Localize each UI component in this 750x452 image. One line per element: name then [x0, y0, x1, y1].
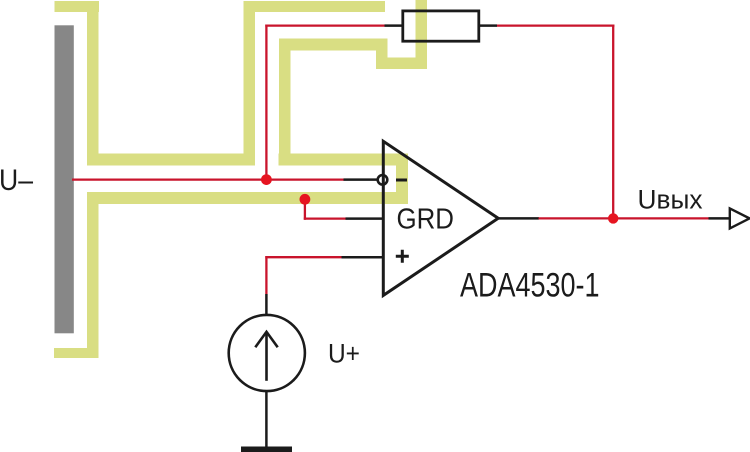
wire: vertical black into current source [265, 294, 268, 316]
guard trace: outer top band [244, 1, 386, 12]
junction node on guard band (GRD pickup) [300, 194, 311, 205]
junction node A on U- wire [261, 174, 272, 185]
svg-text:U–: U– [0, 164, 34, 197]
wire: output black segment to arrow [709, 217, 749, 220]
guard trace: bottom-left stub [54, 348, 99, 358]
op-amp plus pin sign [396, 250, 409, 263]
wire: U- input black segment to input node [344, 178, 379, 181]
wire: output black from op-amp tip [497, 217, 539, 220]
ground [241, 447, 292, 452]
wire: +input horizontal red from source [265, 256, 341, 258]
guard trace: band above U- wire (right part, guard-ring top) [279, 154, 409, 166]
wire: U- input red segment [72, 178, 344, 180]
svg-text:GRD: GRD [397, 204, 455, 236]
wire: +input horizontal black [342, 256, 384, 259]
svg-text:U+: U+ [328, 338, 360, 368]
wire: current source to ground [265, 391, 268, 448]
wire: resistor right lead black [479, 24, 498, 27]
output arrow head [730, 208, 750, 228]
input node open circle [378, 175, 388, 185]
guard trace: left vertical strip upper part [87, 1, 99, 166]
wire: feedback vertical from node A to resistor level [265, 25, 267, 180]
wire: feedback right vertical down to output [612, 25, 614, 219]
svg-text:Uвых: Uвых [638, 185, 703, 215]
op-amp inverting pin dash [396, 179, 407, 182]
svg-text:ADA4530-1: ADA4530-1 [460, 267, 600, 305]
resistor R (feedback) [403, 11, 479, 41]
current source U+ circle [229, 315, 305, 391]
guard trace: vertical strip V2 through resistor [416, 0, 428, 69]
guard trace: inner vertical strip2 beside feedback wire [279, 39, 291, 166]
wire: GRD lead horizontal red [304, 217, 346, 219]
wire: feedback horizontal red to resistor [265, 24, 384, 26]
junction node on output wire [608, 213, 618, 223]
wire: feedback right horizontal red [497, 24, 614, 26]
electrode plate (gray bar) [55, 25, 74, 333]
wire: GRD guard pickup vertical red [304, 198, 306, 220]
guard trace: step connector V1 [376, 39, 388, 70]
guard trace: left vertical strip lower part [87, 192, 99, 358]
wire: GRD lead horizontal black [346, 217, 384, 220]
op-amp U1 ADA4530-1 triangle [383, 141, 498, 295]
guard trace: outer vertical strip1 beside feedback wire [244, 1, 256, 166]
guard trace: top-left stub [55, 1, 100, 12]
guard trace: guard-ring right bar at op-amp input [396, 154, 408, 205]
current source arrow shaft [265, 334, 268, 381]
guard trace: inner top band A [279, 39, 388, 51]
current source arrow head [255, 332, 277, 348]
wire: +input vertical red down from corner [265, 256, 267, 294]
wire: output red middle segment [539, 217, 709, 219]
wire: resistor left lead black [385, 24, 403, 27]
guard trace: step band B under resistor [376, 58, 427, 70]
guard trace: band above U- wire (left part) [87, 154, 255, 166]
guard trace: band below U- wire (guard-ring bottom) [87, 192, 408, 204]
